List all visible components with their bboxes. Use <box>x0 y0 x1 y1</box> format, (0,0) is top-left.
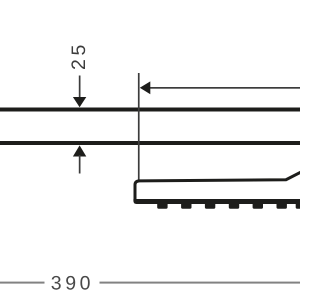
wire: lower dimension stem <box>79 155 81 174</box>
node: down arrowhead <box>73 97 86 107</box>
nozzle 5 <box>253 202 263 209</box>
shower head bottom plate <box>133 199 300 204</box>
wire: 390 dimension line left part <box>0 282 45 284</box>
wire: 390 dimension line right part <box>100 282 301 284</box>
nozzle 6 <box>277 202 287 209</box>
nozzle 3 <box>205 202 215 209</box>
shower head outline <box>135 172 301 200</box>
wire: vertical extension line <box>138 73 140 180</box>
svg-text:390: 390 <box>51 273 94 295</box>
node: left arrowhead <box>140 81 151 94</box>
wire: horizontal dimension line <box>149 87 300 89</box>
nozzle 4 <box>229 202 239 209</box>
wire: upper thick bar (shower arm top line) <box>0 108 300 112</box>
node: up arrowhead <box>73 145 86 156</box>
wire: upper dimension stem <box>79 76 81 99</box>
nozzle 7 (cut off) <box>296 202 306 209</box>
svg-text:25: 25 <box>68 41 90 70</box>
nozzle 2 <box>181 202 191 209</box>
wire: lower thick bar (shower arm bottom line) <box>0 141 300 145</box>
nozzle 1 <box>157 202 167 209</box>
